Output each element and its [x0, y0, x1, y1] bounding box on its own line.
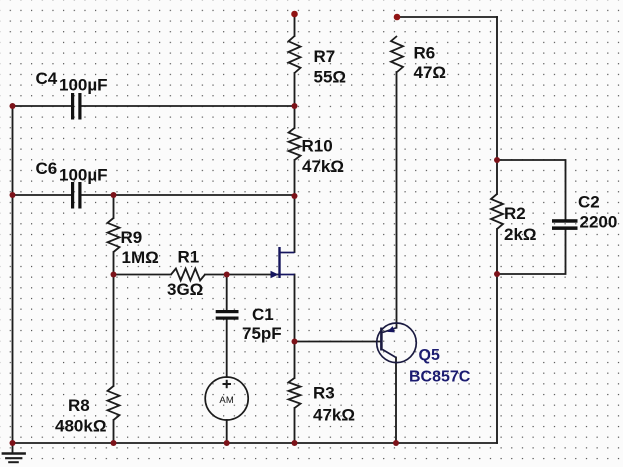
svg-text:BC857C: BC857C [409, 369, 471, 386]
svg-text:47kΩ: 47kΩ [313, 406, 355, 425]
svg-text:C1: C1 [252, 305, 274, 324]
svg-text:3GΩ: 3GΩ [167, 280, 203, 299]
svg-text:2200: 2200 [580, 213, 618, 232]
svg-text:R3: R3 [313, 384, 335, 403]
svg-text:R7: R7 [314, 47, 336, 66]
svg-text:Q5: Q5 [419, 347, 440, 364]
svg-text:1MΩ: 1MΩ [122, 248, 159, 267]
svg-text:C2: C2 [578, 193, 600, 212]
svg-text:R10: R10 [302, 137, 333, 156]
svg-text:C6: C6 [36, 159, 58, 178]
svg-text:R9: R9 [121, 228, 143, 247]
svg-text:100µF: 100µF [59, 76, 108, 95]
svg-text:75pF: 75pF [242, 324, 282, 343]
svg-text:C4: C4 [36, 69, 58, 88]
svg-text:47Ω: 47Ω [414, 63, 447, 82]
svg-text:R2: R2 [504, 204, 526, 223]
svg-text:2kΩ: 2kΩ [504, 225, 537, 244]
svg-text:47kΩ: 47kΩ [302, 157, 344, 176]
svg-text:R1: R1 [178, 248, 200, 267]
svg-text:R8: R8 [68, 396, 90, 415]
svg-text:R6: R6 [414, 44, 436, 63]
svg-text:100µF: 100µF [59, 166, 108, 185]
svg-text:55Ω: 55Ω [314, 68, 347, 87]
svg-text:AM: AM [219, 395, 234, 406]
svg-text:480kΩ: 480kΩ [55, 417, 106, 436]
